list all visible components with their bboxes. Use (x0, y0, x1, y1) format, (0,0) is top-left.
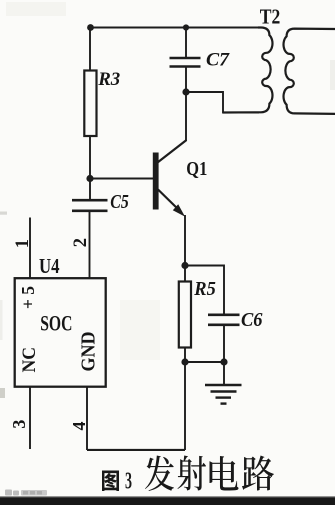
wire top rail from node A to transformer primary top (90, 27, 258, 29)
IC U4 box (15, 278, 106, 387)
wire emitter down to R5 node (184, 215, 186, 266)
caption 图 (figure) glyph (102, 470, 119, 491)
svg-text:Q1: Q1 (186, 158, 207, 180)
wire from C7 to collector node (185, 67, 187, 92)
wire to ground symbol (223, 362, 225, 385)
bottom bar (0, 497, 335, 505)
caption 射 glyph (178, 456, 207, 491)
svg-text:C5: C5 (110, 192, 129, 213)
svg-text:SOC: SOC (40, 311, 72, 336)
svg-text:R3: R3 (97, 69, 120, 90)
wire collector vertical (185, 92, 187, 141)
node junction dot collector/C7 (182, 88, 189, 95)
transformer T2 secondary winding (right) (284, 29, 335, 114)
svg-text:+5: +5 (18, 286, 38, 309)
wire pin 1 stub (29, 218, 31, 279)
transformer T2 primary winding (left) (223, 28, 272, 113)
wire pin 2 from C5 down to U4 (89, 212, 91, 279)
wire from base node down to C5 (89, 179, 91, 200)
node junction dot R5 bottom (181, 358, 188, 365)
wire step from collector node to transformer primary bottom (186, 92, 259, 113)
svg-text:C6: C6 (241, 310, 263, 331)
caption 发 glyph (145, 456, 174, 491)
wire from top rail down to C7 (185, 28, 187, 58)
wire base of Q1 (90, 178, 154, 180)
resistor R5 (179, 282, 191, 348)
wire R5 bottom stub (184, 348, 186, 363)
node A junction dot (supply rail / R3) (87, 24, 94, 31)
svg-text:1: 1 (13, 239, 33, 248)
svg-text:4: 4 (69, 422, 89, 431)
node junction dot at R3/C5/base (86, 175, 93, 182)
scan artifact smudges (decorative) (0, 2, 335, 398)
svg-text:NC: NC (20, 347, 40, 373)
wire pin 4 return horizontal (87, 449, 185, 451)
svg-text:2: 2 (71, 238, 91, 247)
capacitor C5 (72, 200, 108, 211)
capacitor C6 (208, 315, 240, 325)
wire C6 bottom to ground node (223, 326, 225, 363)
svg-text:T2: T2 (260, 5, 281, 29)
resistor R3 (84, 71, 96, 137)
wire pin 3 stub (29, 387, 31, 449)
wire pin 4 from U4 down (86, 387, 88, 451)
capacitor C7 (170, 58, 201, 67)
ground (205, 385, 242, 404)
wire from emitter node right to C6 branch (185, 266, 224, 315)
watermark bottom-left (5, 490, 47, 496)
wire between bottom nodes (185, 361, 224, 363)
svg-text:U4: U4 (39, 254, 60, 278)
svg-text:C7: C7 (206, 49, 231, 70)
svg-text:3: 3 (125, 469, 132, 495)
svg-text:GND: GND (77, 332, 99, 372)
svg-text:3: 3 (9, 420, 29, 429)
node junction dot above C7 (183, 24, 189, 30)
node junction dot emitter/R5/C6 (181, 262, 188, 269)
caption 电 glyph (209, 456, 238, 490)
svg-text:R5: R5 (193, 278, 215, 300)
wire R5 top stub (184, 266, 186, 283)
wire from node A down to R3 (89, 28, 91, 72)
wire from R5 bottom node down to pin 4 return (184, 362, 186, 450)
wire from R3 to base node (89, 136, 91, 179)
transistor Q1 (153, 140, 187, 217)
node junction dot C6 bottom / ground (220, 358, 227, 365)
caption 路 glyph (242, 456, 274, 491)
